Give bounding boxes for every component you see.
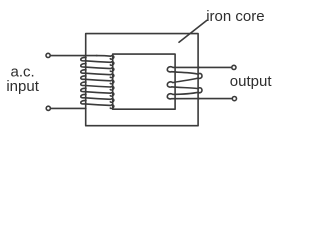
terminal output top (232, 65, 236, 69)
svg-text:iron core: iron core (206, 8, 264, 25)
secondary coil S1 (with output wires) (167, 67, 202, 99)
wire a.c. input top (51, 55, 97, 57)
terminal input top (46, 53, 50, 57)
wire output top (198, 66, 231, 68)
svg-text:input: input (6, 78, 39, 95)
svg-text:output: output (230, 73, 273, 90)
terminal input bottom (46, 106, 50, 110)
wire a.c. input bottom (51, 107, 86, 109)
terminal output bottom (232, 97, 236, 101)
leader line to iron core label (179, 20, 207, 42)
iron core inner edge (window) (113, 54, 175, 109)
primary coil P1 (entry from a.c. input top wire) (81, 56, 114, 109)
iron core outer edge (86, 34, 198, 126)
wire output bottom (198, 98, 232, 100)
